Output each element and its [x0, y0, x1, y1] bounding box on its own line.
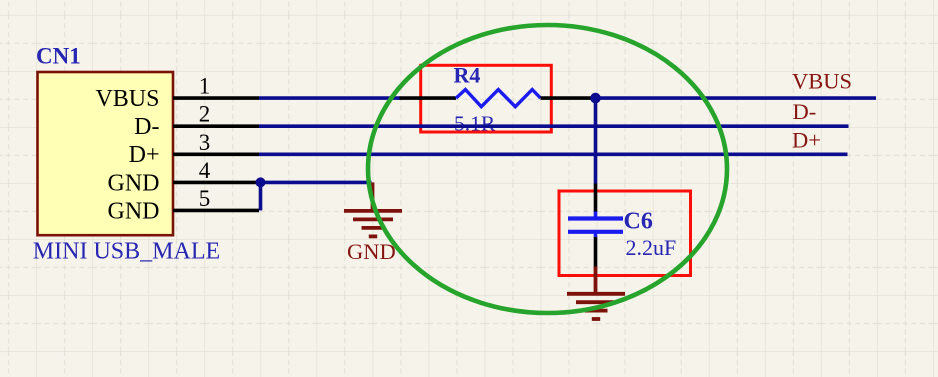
svg-text:3: 3 [199, 130, 211, 155]
svg-text:2.2uF: 2.2uF [626, 235, 677, 260]
wire down to C6 [594, 98, 598, 183]
capacitor C6 top lead (blue) [594, 212, 598, 219]
ground symbol left [344, 182, 402, 236]
svg-text:5.1R: 5.1R [454, 112, 496, 136]
resistor R4 right pin [541, 96, 596, 100]
svg-text:R4: R4 [454, 62, 481, 87]
pin 4 stub [173, 181, 256, 185]
svg-text:D-: D- [793, 99, 817, 124]
highlight box around R4 [421, 65, 552, 132]
svg-text:D-: D- [134, 114, 159, 140]
wire D+ [259, 153, 848, 157]
svg-text:VBUS: VBUS [95, 86, 159, 112]
wire VBUS from R4 to right [596, 96, 877, 100]
pin 3 stub [173, 153, 259, 157]
junction at R4 output [590, 93, 601, 104]
junction at pin4 [256, 177, 266, 187]
svg-text:D+: D+ [129, 142, 160, 168]
svg-text:1: 1 [199, 74, 211, 99]
capacitor C6 bottom lead (blue) [594, 232, 598, 238]
svg-text:GND: GND [108, 170, 160, 196]
capacitor C6 plates [568, 216, 623, 220]
svg-text:4: 4 [199, 158, 211, 183]
wire pin5 up to pin4 [259, 182, 263, 210]
pin 1 stub [173, 96, 259, 100]
capacitor C6 top pin [594, 184, 598, 213]
wire D- [259, 124, 849, 128]
svg-text:CN1: CN1 [36, 44, 81, 69]
connector CN1 body [38, 72, 174, 235]
svg-text:GND: GND [108, 198, 160, 224]
resistor R4 left pin [400, 96, 457, 100]
pin 5 stub [173, 209, 259, 213]
svg-text:2: 2 [199, 102, 211, 127]
svg-text:GND: GND [347, 239, 396, 264]
resistor R4 body [456, 90, 541, 107]
capacitor C6 bottom pin [594, 237, 598, 267]
svg-text:5: 5 [199, 186, 211, 211]
wire GND from pin4 junction [259, 181, 372, 185]
svg-text:D+: D+ [792, 128, 821, 153]
svg-text:VBUS: VBUS [792, 69, 852, 94]
ground symbol under C6 [567, 267, 625, 320]
wire VBUS from pin1 to R4 [259, 96, 401, 100]
pin 2 stub [173, 124, 259, 128]
svg-text:MINI USB_MALE: MINI USB_MALE [33, 239, 220, 265]
svg-text:C6: C6 [624, 209, 653, 235]
highlight box around C6 [559, 191, 691, 276]
green highlight ellipse [368, 25, 727, 313]
